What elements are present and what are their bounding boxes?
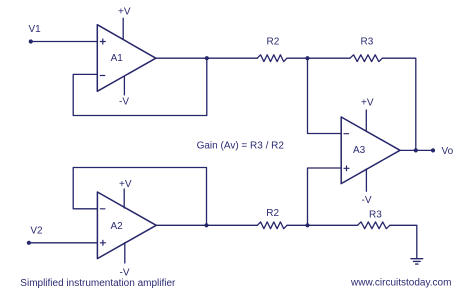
-V supply A2 [120, 243, 130, 279]
-V supply A3 [362, 169, 372, 206]
resistor R3 (bottom) [358, 209, 390, 228]
wire A1 feedback loop [73, 58, 207, 115]
svg-text:A2: A2 [111, 221, 124, 232]
wire A3 output [400, 149, 433, 151]
op-amp A1 [97, 25, 156, 92]
+V supply A3 [361, 97, 374, 131]
svg-text:+V: +V [118, 7, 131, 18]
wire V1 to A1 + input [31, 41, 98, 43]
svg-text:R2: R2 [266, 208, 279, 219]
node A2 output junction [204, 223, 208, 227]
node A3 output junction [414, 148, 418, 152]
op-amp A2 [97, 192, 156, 259]
wire A2 output to R2 bottom [156, 224, 257, 226]
wire R3 top to A3 output [382, 58, 415, 150]
svg-text:+V: +V [361, 97, 374, 108]
-V supply A1 [119, 77, 129, 108]
wire R3 bottom to ground [390, 225, 417, 258]
wire junction to A3 non-inverting input [308, 168, 342, 225]
op-amp A3 [341, 117, 400, 184]
node A3 non-inverting junction [305, 223, 309, 227]
node A1 output junction [205, 56, 209, 60]
wire A1 output to R2 [156, 57, 257, 59]
wire R2 to R3 (top) [287, 57, 350, 59]
node Vo terminal [431, 146, 454, 157]
+V supply A1 [118, 7, 131, 40]
wire R2 bottom to R3 bottom [287, 224, 358, 226]
svg-text:+V: +V [119, 179, 132, 190]
node V1 [29, 24, 42, 44]
ground [411, 259, 423, 264]
svg-text:-V: -V [119, 96, 129, 107]
svg-text:-V: -V [362, 195, 372, 206]
svg-text:R3: R3 [369, 209, 382, 220]
svg-text:www.circuitstoday.com: www.circuitstoday.com [350, 278, 451, 289]
svg-text:R3: R3 [361, 37, 374, 48]
wire A2 feedback loop [73, 168, 206, 226]
svg-text:V1: V1 [29, 24, 42, 35]
resistor R2 (bottom) [257, 208, 287, 229]
node A3 inverting junction [305, 56, 309, 60]
svg-text:Vo: Vo [442, 146, 454, 157]
+V supply A2 [119, 179, 132, 208]
svg-text:A1: A1 [111, 53, 124, 64]
svg-text:R2: R2 [267, 37, 280, 48]
svg-text:A3: A3 [353, 145, 366, 156]
resistor R2 (top) [257, 37, 287, 62]
wire V2 to A2 + input [29, 242, 98, 244]
svg-text:Gain (Av) = R3 / R2: Gain (Av) = R3 / R2 [197, 141, 285, 152]
wire junction to A3 inverting input [308, 58, 342, 133]
svg-text:V2: V2 [30, 225, 43, 236]
resistor R3 (top) [350, 37, 382, 62]
svg-text:Simplified instrumentation amp: Simplified instrumentation amplifier [20, 278, 176, 289]
node V2 [27, 225, 43, 245]
